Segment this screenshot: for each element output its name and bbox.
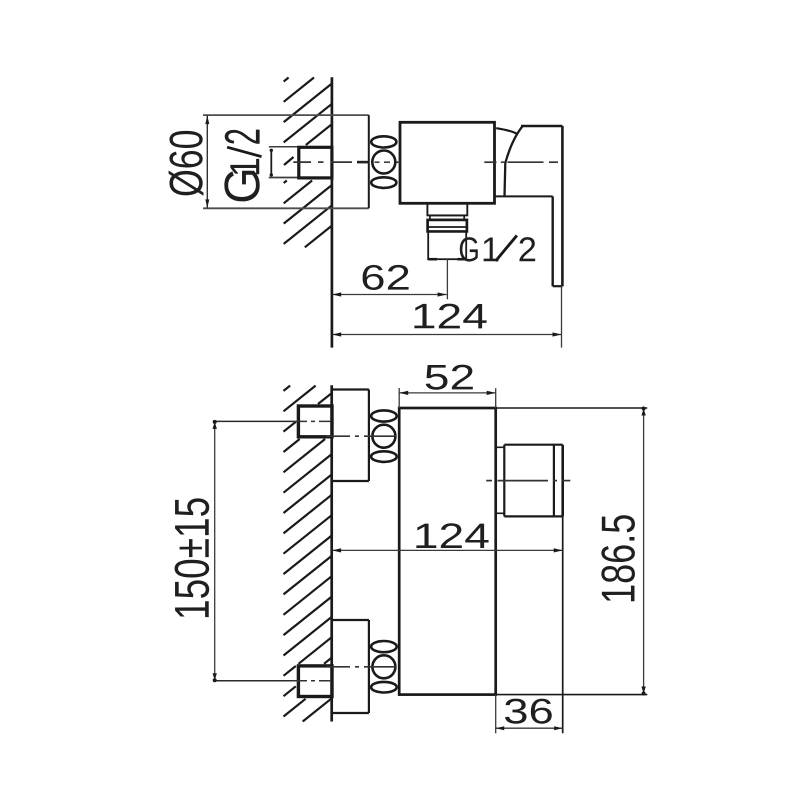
svg-text:1: 1 <box>481 231 500 269</box>
svg-text:G: G <box>458 230 479 269</box>
svg-text:124: 124 <box>413 516 490 556</box>
svg-text:Ø60: Ø60 <box>159 129 212 197</box>
svg-text:2: 2 <box>518 231 537 269</box>
svg-text:36: 36 <box>503 691 554 731</box>
svg-text:52: 52 <box>424 357 475 397</box>
svg-text:2: 2 <box>214 128 271 145</box>
svg-text:186.5: 186.5 <box>592 514 645 604</box>
svg-text:62: 62 <box>360 257 411 297</box>
svg-text:150±15: 150±15 <box>166 497 220 620</box>
svg-text:1: 1 <box>223 157 269 177</box>
svg-text:124: 124 <box>411 296 488 336</box>
